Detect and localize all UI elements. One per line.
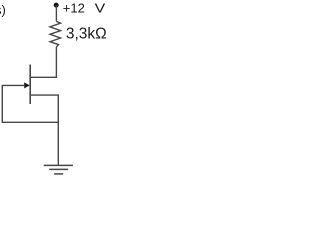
wire supply dot to resistor top xyxy=(55,5,57,21)
wire resistor bottom to drain xyxy=(31,47,57,77)
gate wire loop: left, down, along bottom to source junction xyxy=(2,85,58,122)
resistor R1 zigzag xyxy=(50,21,61,47)
ground symbol bar 1 xyxy=(44,164,73,166)
svg-text:3,3kΩ: 3,3kΩ xyxy=(66,26,107,43)
ground symbol bar 2 xyxy=(49,168,68,170)
source wire: from channel right, down to junction, down to ground xyxy=(31,95,58,165)
node +12V supply dot xyxy=(54,3,59,8)
transistor T1 channel bar xyxy=(29,65,31,105)
gate arrow of T1 xyxy=(24,82,30,88)
svg-text:V: V xyxy=(95,1,106,16)
svg-text:+12: +12 xyxy=(63,1,85,16)
svg-text:s): s) xyxy=(0,3,6,18)
ground symbol bar 3 xyxy=(54,173,63,175)
